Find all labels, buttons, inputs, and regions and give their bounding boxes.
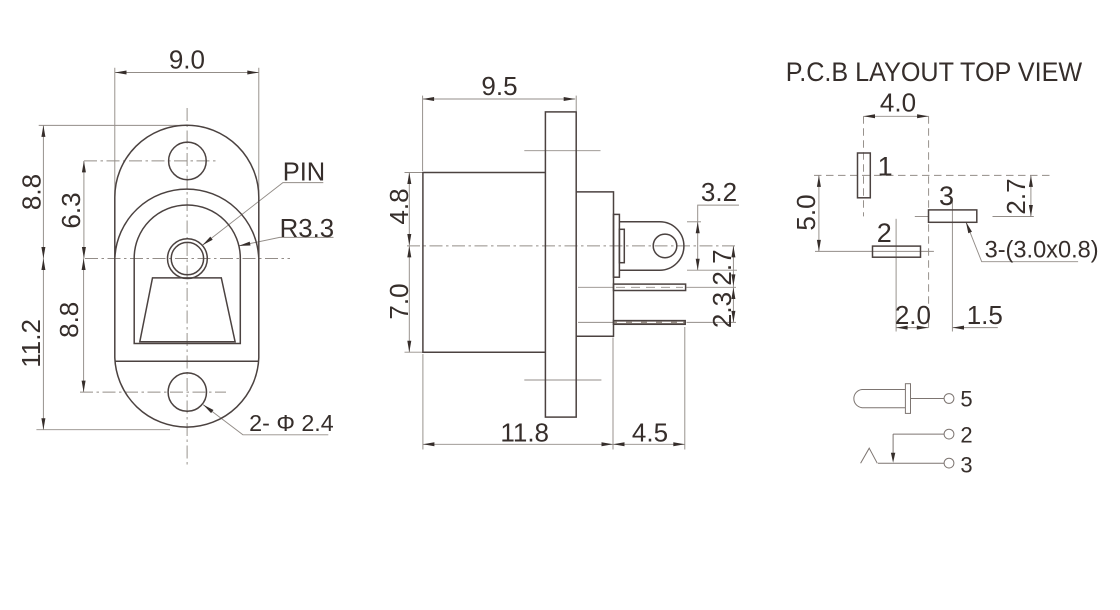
- svg-text:7.0: 7.0: [384, 283, 414, 319]
- svg-text:9.5: 9.5: [481, 71, 517, 101]
- svg-text:P.C.B LAYOUT TOP VIEW: P.C.B LAYOUT TOP VIEW: [786, 57, 1083, 87]
- svg-text:5.0: 5.0: [791, 194, 821, 230]
- svg-text:3: 3: [960, 453, 972, 478]
- svg-text:2: 2: [960, 422, 972, 447]
- svg-text:6.3: 6.3: [56, 192, 86, 228]
- svg-text:3-(3.0x0.8): 3-(3.0x0.8): [985, 237, 1099, 264]
- svg-text:2.0: 2.0: [895, 300, 931, 330]
- svg-text:11.2: 11.2: [16, 319, 46, 368]
- svg-text:1: 1: [878, 151, 893, 181]
- svg-text:2.7: 2.7: [707, 249, 737, 285]
- svg-text:11.8: 11.8: [500, 418, 549, 448]
- svg-text:2.3: 2.3: [707, 292, 737, 328]
- svg-text:3.2: 3.2: [701, 177, 737, 207]
- svg-text:9.0: 9.0: [169, 45, 205, 75]
- svg-text:4.8: 4.8: [384, 188, 414, 224]
- svg-text:5: 5: [960, 386, 972, 411]
- svg-text:4.5: 4.5: [632, 418, 668, 448]
- svg-text:R3.3: R3.3: [280, 213, 335, 243]
- svg-text:2- Φ 2.4: 2- Φ 2.4: [249, 410, 334, 436]
- svg-text:8.8: 8.8: [54, 302, 84, 338]
- svg-text:1.5: 1.5: [967, 300, 1003, 330]
- svg-text:8.8: 8.8: [16, 174, 46, 210]
- svg-text:4.0: 4.0: [880, 88, 916, 118]
- svg-text:2.7: 2.7: [1001, 178, 1031, 214]
- svg-text:2: 2: [877, 218, 892, 248]
- svg-text:PIN: PIN: [283, 157, 326, 187]
- svg-text:3: 3: [939, 181, 954, 211]
